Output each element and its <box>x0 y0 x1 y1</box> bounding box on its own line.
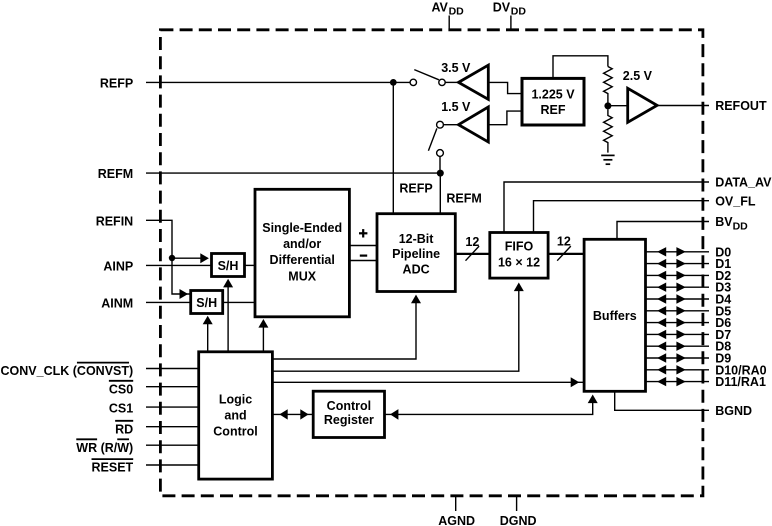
svg-text:RD: RD <box>115 422 133 436</box>
svg-text:16 × 12: 16 × 12 <box>498 256 540 270</box>
svg-text:Pipeline: Pipeline <box>392 247 440 261</box>
svg-text:AINP: AINP <box>103 259 133 273</box>
svg-text:REFOUT: REFOUT <box>715 99 767 113</box>
svg-text:Buffers: Buffers <box>593 309 637 323</box>
svg-text:ADC: ADC <box>403 263 430 277</box>
svg-text:REFM: REFM <box>446 191 481 205</box>
svg-text:Register: Register <box>324 413 374 427</box>
svg-text:2.5 V: 2.5 V <box>623 69 653 83</box>
svg-text:Control: Control <box>213 424 257 438</box>
svg-text:1.225 V: 1.225 V <box>531 88 575 102</box>
svg-text:12: 12 <box>557 235 571 249</box>
svg-text:WR (R/W): WR (R/W) <box>76 441 133 455</box>
svg-text:DD: DD <box>449 6 465 18</box>
svg-text:REFIN: REFIN <box>96 214 134 228</box>
svg-text:12-Bit: 12-Bit <box>399 232 435 246</box>
svg-text:Control: Control <box>327 399 371 413</box>
svg-text:3.5 V: 3.5 V <box>441 61 471 75</box>
svg-text:BGND: BGND <box>715 404 752 418</box>
svg-text:DD: DD <box>733 220 749 232</box>
svg-text:CONV_CLK (CONVST): CONV_CLK (CONVST) <box>1 364 134 378</box>
svg-text:REF: REF <box>541 103 566 117</box>
svg-text:S/H: S/H <box>196 296 217 310</box>
svg-text:AINM: AINM <box>101 296 133 310</box>
svg-text:1.5 V: 1.5 V <box>441 100 471 114</box>
svg-text:Single-Ended: Single-Ended <box>262 221 342 235</box>
svg-text:OV_FL: OV_FL <box>715 194 756 208</box>
svg-text:AGND: AGND <box>438 514 475 526</box>
svg-text:MUX: MUX <box>288 269 316 283</box>
svg-text:DV: DV <box>493 1 511 15</box>
svg-text:and: and <box>224 409 246 423</box>
svg-text:DATA_AV: DATA_AV <box>715 176 772 190</box>
svg-text:AV: AV <box>431 1 448 15</box>
svg-text:D11/RA1: D11/RA1 <box>715 375 766 389</box>
svg-text:and/or: and/or <box>283 237 321 251</box>
svg-text:REFP: REFP <box>399 182 432 196</box>
svg-text:CS0: CS0 <box>109 382 133 396</box>
svg-text:Logic: Logic <box>219 393 252 407</box>
svg-text:12: 12 <box>465 235 479 249</box>
svg-text:FIFO: FIFO <box>505 240 534 254</box>
svg-text:REFP: REFP <box>100 76 133 90</box>
svg-text:S/H: S/H <box>218 259 239 273</box>
svg-text:DGND: DGND <box>500 514 537 526</box>
svg-text:RESET: RESET <box>92 461 134 475</box>
svg-text:Differential: Differential <box>270 253 335 267</box>
svg-text:REFM: REFM <box>98 167 133 181</box>
svg-text:BV: BV <box>715 215 733 229</box>
svg-text:DD: DD <box>511 6 527 18</box>
svg-text:CS1: CS1 <box>109 401 133 415</box>
